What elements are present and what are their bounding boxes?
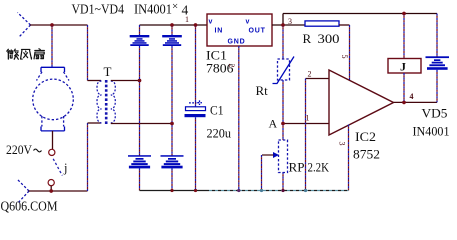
svg-text:220V: 220V (6, 143, 32, 157)
svg-text:R: R (303, 31, 312, 46)
node junction secondary top / diode chain 1 (138, 79, 141, 82)
svg-text:VD5: VD5 (422, 106, 448, 121)
ground rail left solid segment (140, 190, 210, 192)
svg-text:RP: RP (289, 161, 305, 175)
node junction switch tap (top dot layer) (49, 189, 53, 193)
svg-text:3: 3 (288, 17, 292, 26)
svg-text:T: T (104, 64, 112, 79)
node junction C1 on +V bus (194, 23, 197, 26)
svg-text:v: v (209, 19, 214, 26)
wire: op-amp output (394, 101, 438, 103)
node junction secondary bottom / diode chain 2 (170, 122, 173, 125)
node junction output / relay (402, 101, 405, 104)
svg-text:j: j (63, 161, 67, 175)
op-amp regulator IC1 7806 box (207, 14, 272, 46)
wire: rectifier +V bus (140, 24, 208, 26)
wire: chain2 middle lead (171, 46, 173, 156)
svg-text:2: 2 (308, 70, 312, 79)
wire: IC1 GND lead (238, 46, 240, 191)
wire: VD5 bottom lead (436, 70, 438, 103)
svg-text:OUT: OUT (249, 28, 266, 35)
wire: chain1 middle lead (139, 46, 141, 156)
transformer T primary winding (97, 81, 102, 123)
label 微风扇 (fan) drawn strokes (7, 49, 19, 59)
node junction relay top (top dot layer) (402, 12, 406, 16)
svg-text:VD1~VD4: VD1~VD4 (72, 2, 125, 17)
wire: RP wiper to ground (261, 155, 263, 191)
diode VD5 (426, 56, 450, 69)
svg-text:IN4001: IN4001 (413, 124, 450, 139)
wire: op-amp pin5 lead (349, 25, 351, 80)
node junction chain2 on +V bus (top dot layer) (170, 23, 174, 27)
svg-text:GND: GND (228, 39, 246, 46)
wire: switch to bottom line (50, 186, 52, 191)
capacitor C1 (185, 100, 206, 117)
node junction chain2 on +V bus (170, 23, 173, 26)
thermistor Rt (273, 57, 295, 84)
mains connector arrow bottom-left (18, 180, 30, 204)
svg-text:Rt: Rt (256, 83, 269, 98)
svg-text:4: 4 (410, 92, 414, 101)
wire: bottom 220V line (29, 190, 88, 192)
node junction secondary bottom (top dot layer) (170, 122, 174, 126)
wire: op-amp pin3 lead to ground rail (348, 125, 350, 191)
relay J (388, 59, 421, 74)
node junction pin2 riser on rail (304, 189, 307, 192)
switch j top contact (49, 149, 55, 155)
svg-text:300: 300 (318, 31, 340, 46)
node junction C1 on +V bus (top dot layer) (194, 23, 198, 27)
svg-text:v: v (246, 19, 251, 26)
node junction fan tap (top dot layer) (50, 23, 54, 27)
wire: relay top lead (403, 14, 405, 59)
svg-text:IC2: IC2 (355, 129, 376, 144)
node junction RP bottom on rail (281, 189, 284, 192)
wire: left riser top (to transformer primary top) (87, 25, 89, 81)
svg-text:×: × (172, 1, 178, 13)
wire: op-amp pin2 input route (306, 78, 330, 80)
op-amp IC2 triangle (329, 70, 394, 135)
wire: C1 top lead (195, 25, 197, 107)
diode VD1 (130, 35, 150, 46)
wire: thermistor bottom lead (282, 80, 284, 124)
node junction fan tap (50, 23, 53, 26)
node junction secondary top (top dot layer) (138, 79, 142, 83)
node junction switch tap (50, 189, 53, 192)
wire: IC1 output (272, 24, 305, 26)
svg-text:Q606.COM: Q606.COM (1, 199, 58, 214)
label VD1~VD4 IN4001x4 (72, 1, 189, 18)
diode VD2 (162, 35, 182, 46)
switch j bottom contact (48, 180, 54, 186)
wire: primary top lead (88, 80, 102, 82)
node A junction (281, 122, 284, 125)
wire: VD5 top lead (436, 14, 438, 57)
wire: secondary bottom lead (111, 123, 172, 125)
wire: pin2 riser to ground rail (305, 79, 307, 191)
wire: primary bottom lead (88, 122, 102, 124)
wire: fan top lead (dashed) (51, 25, 53, 67)
wire: top +6V bus to relay and VD5 (283, 13, 437, 15)
node junction IC1 GND on rail (237, 189, 240, 192)
node junction C1 on rail (194, 189, 197, 192)
wire: chain1 upper lead (139, 25, 141, 35)
svg-text:8752: 8752 (353, 147, 380, 162)
svg-text:1: 1 (185, 15, 189, 24)
diode VD3 (128, 155, 151, 168)
wire: node A to op-amp lower input (283, 123, 329, 125)
svg-text:A: A (269, 117, 278, 131)
potentiometer RP (262, 140, 288, 173)
wire: relay bottom lead (403, 73, 405, 102)
node A junction (top dot layer) (281, 122, 285, 126)
node junction output relay (top dot layer) (402, 101, 406, 105)
transformer T secondary winding (111, 81, 116, 123)
node junction RP wiper on rail (260, 189, 263, 192)
node junction chain2 on rail (170, 189, 173, 192)
ground rail right dashed segment (209, 190, 349, 192)
svg-text:C1: C1 (210, 103, 224, 118)
svg-text:220u: 220u (207, 126, 232, 141)
svg-text:2: 2 (227, 64, 236, 68)
mains connector arrow top-left (18, 13, 31, 38)
motor fan 微风扇 symbol (33, 67, 74, 131)
wire: chain2 lower lead (171, 168, 173, 190)
switch j blade (53, 159, 62, 176)
resistor R 300 (305, 21, 339, 26)
diode VD4 (161, 155, 184, 168)
wire: C1 bottom lead (195, 117, 197, 190)
wire: output riser to top bus (282, 14, 284, 26)
wire: chain1 lower lead (139, 168, 141, 190)
svg-text:3: 3 (338, 142, 347, 146)
svg-text:IN: IN (215, 28, 224, 35)
wire: R right lead (339, 24, 350, 26)
node junction IC1 output (281, 23, 284, 26)
node junction IC1 output (top dot layer) (281, 23, 285, 27)
wire: secondary top lead (111, 80, 140, 82)
wire: left riser bottom (to transformer primary bottom) (87, 123, 89, 191)
svg-text:2.2K: 2.2K (308, 161, 330, 175)
wire: top-left 220V line (30, 24, 88, 26)
wire: RP top lead (282, 124, 284, 141)
wire: fan bottom lead (52, 131, 54, 149)
transformer T core (105, 80, 108, 126)
node junction relay on top bus (402, 12, 405, 15)
wire: thermistor top lead (282, 25, 284, 59)
wire: chain2 upper lead (171, 25, 173, 35)
svg-text:J: J (400, 60, 406, 74)
wire: RP bottom lead (282, 172, 284, 191)
svg-text:IN4001: IN4001 (134, 2, 172, 17)
svg-text:5: 5 (340, 55, 349, 59)
